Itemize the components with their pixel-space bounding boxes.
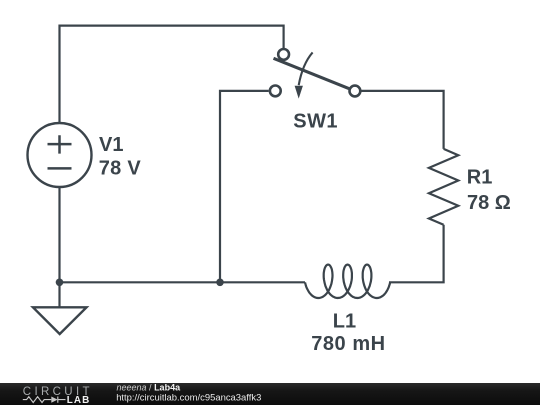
junction dot [216,279,224,287]
resistor R1 [429,149,458,225]
inductor L1 [305,265,390,298]
wire [362,91,444,149]
svg-text:neeena / Lab4a: neeena / Lab4a [117,383,182,393]
switch SW1 [270,49,360,99]
svg-text:SW1: SW1 [293,111,338,133]
footer bar [0,383,540,405]
wire [60,281,306,283]
svg-text:LAB: LAB [67,395,91,405]
wire [389,225,444,282]
voltage source V1 [28,123,92,187]
svg-text:78 Ω: 78 Ω [467,192,511,214]
svg-text:L1: L1 [333,311,356,333]
wire [220,91,269,282]
CircuitLab logo [23,386,93,405]
wire [60,26,284,123]
svg-text:78 V: 78 V [99,157,142,179]
junction dot [56,279,64,287]
svg-text:780 mH: 780 mH [311,333,385,355]
attribution text [116,383,261,404]
ground [33,282,87,334]
svg-text:http://circuitlab.com/c95anca3: http://circuitlab.com/c95anca3affk3 [116,393,261,404]
wire [58,187,60,282]
svg-text:R1: R1 [467,167,493,189]
svg-text:V1: V1 [99,134,123,156]
